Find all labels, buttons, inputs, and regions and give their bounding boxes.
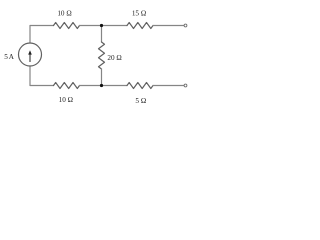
wire: bottom-left rail from current source to resistor R4 <box>30 66 54 86</box>
svg-text:15 Ω: 15 Ω <box>132 10 146 18</box>
terminal b (bottom right, open) <box>184 84 187 87</box>
resistor R2 15ohm (top right) <box>127 23 153 29</box>
wire: vertical from top junction down to resistor R3 <box>101 26 103 43</box>
junction node top <box>100 24 103 27</box>
resistor R1 10ohm (top left) <box>54 23 80 29</box>
svg-text:5 A: 5 A <box>4 53 14 61</box>
svg-text:5 Ω: 5 Ω <box>135 97 146 105</box>
wire: top-left rail from current source corner to resistor R1 <box>30 26 54 44</box>
wire: bottom junction to resistor R5 <box>102 85 128 87</box>
junction node bottom <box>100 84 103 87</box>
resistor R4 10ohm (bottom left) <box>54 83 80 89</box>
wire: R1 to top junction node <box>80 25 102 27</box>
wire: R2 to top terminal <box>153 25 184 27</box>
resistor R3 20ohm (middle vertical) <box>99 42 105 69</box>
svg-text:20 Ω: 20 Ω <box>107 54 121 62</box>
resistor R5 5ohm (bottom right) <box>127 83 153 89</box>
svg-text:10 Ω: 10 Ω <box>57 10 71 18</box>
svg-text:10 Ω: 10 Ω <box>59 96 73 104</box>
wire: R3 to bottom junction node <box>101 69 103 86</box>
wire: R4 to bottom junction node <box>80 85 102 87</box>
wire: R5 to bottom terminal <box>153 85 184 87</box>
current source I1 circle <box>19 43 42 66</box>
current source I1 arrow <box>28 50 32 62</box>
terminal a (top right, open) <box>184 24 187 27</box>
wire: top junction to resistor R2 <box>102 25 128 27</box>
